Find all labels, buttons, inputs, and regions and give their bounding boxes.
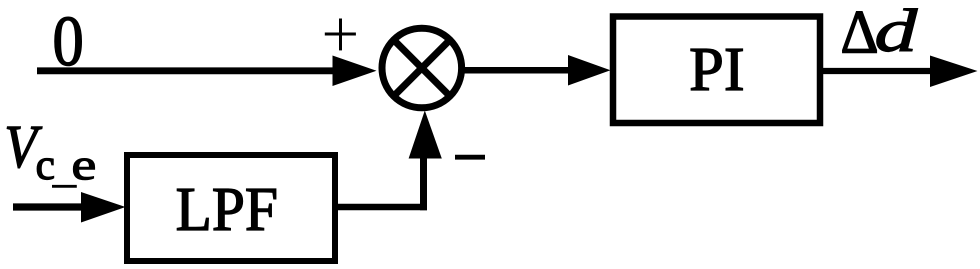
node 0 (reference input label): [55, 17, 81, 65]
minus sign at summing junction feedback input: [455, 155, 485, 160]
wire: reference input into summing junction: [37, 67, 340, 74]
wire: summing junction to PI block: [461, 67, 572, 74]
block LPF (low-pass filter): [127, 155, 335, 261]
wire: V_c_e input into LPF: [13, 203, 90, 210]
wire: feedback vertical segment up to summing junction: [420, 157, 427, 210]
block PI (controller): [613, 17, 820, 124]
node V_c_e (input label): [7, 127, 42, 168]
wire: LPF output horizontal segment: [338, 204, 427, 211]
wire: PI output: [822, 68, 935, 74]
summing junction U1 (circle with X): [382, 28, 462, 108]
node Δd (output label): [843, 12, 877, 53]
plus sign at summing junction input: [325, 33, 356, 36]
